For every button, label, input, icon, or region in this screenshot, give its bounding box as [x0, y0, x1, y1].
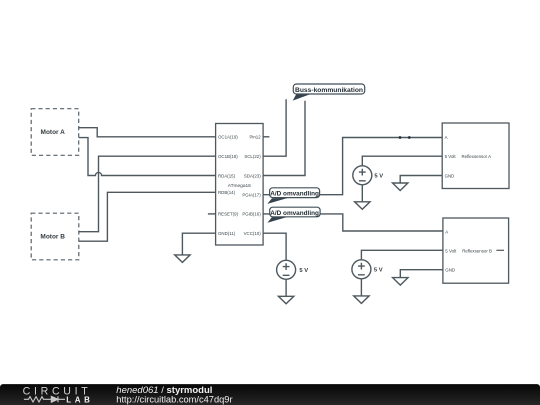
- svg-text:ATmega16: ATmega16: [228, 183, 251, 189]
- wire V2 to ground: [361, 185, 363, 202]
- wire V1 to ground: [285, 279, 287, 296]
- svg-text:Buss-kommunikation: Buss-kommunikation: [295, 87, 363, 94]
- ground for V3: [354, 296, 369, 304]
- svg-text:LAB: LAB: [66, 396, 93, 405]
- svg-text:Motor B: Motor B: [40, 234, 65, 241]
- svg-text:OC1A(19): OC1A(19): [218, 135, 238, 140]
- svg-text:Reflexsensor B: Reflexsensor B: [462, 248, 492, 253]
- motor B box: [31, 213, 79, 260]
- svg-text:5 Volt: 5 Volt: [445, 248, 457, 253]
- wire VCC(10) to 5V source V1: [263, 233, 286, 260]
- ground for sensor B: [393, 278, 408, 286]
- svg-text:GND: GND: [445, 268, 455, 273]
- svg-text:A: A: [445, 135, 448, 140]
- svg-text:PGIA(17): PGIA(17): [242, 193, 261, 198]
- callout A/D omvandling 1: [267, 188, 319, 204]
- motor A box: [31, 109, 78, 156]
- wire SDA(23) to bus: [263, 101, 305, 176]
- wire motor A to RDA with hop: [79, 138, 216, 176]
- voltage source V2 5V (sensor A supply): [362, 156, 442, 166]
- dash after Reflexsensor B: [496, 249, 504, 251]
- svg-text:OC1B(18): OC1B(18): [218, 154, 238, 159]
- ground for GND(11): [175, 255, 190, 263]
- svg-text:Motor A: Motor A: [41, 129, 66, 136]
- IC pin labels: [218, 135, 261, 236]
- junction dot 1: [399, 136, 402, 139]
- sensor box Reflexsensor B: [443, 218, 509, 283]
- svg-text:5 V: 5 V: [374, 268, 383, 274]
- wire PGIA(17) to sensor A: [263, 138, 442, 195]
- svg-text:5 V: 5 V: [374, 174, 383, 180]
- sensor B pin labels: [445, 229, 492, 272]
- svg-text:RDA(15): RDA(15): [218, 173, 236, 178]
- svg-text:RDB(14): RDB(14): [218, 190, 236, 195]
- wire motor A to OC1A: [79, 128, 216, 137]
- wire motor B to RDB: [79, 192, 216, 241]
- svg-text:GND: GND: [445, 173, 455, 178]
- pin stub RESET(9): [208, 213, 216, 215]
- IC U1 ATmega16: [216, 124, 264, 246]
- ground for V2: [355, 202, 370, 210]
- wire GND(11) to ground: [182, 233, 215, 255]
- junction dot 2: [408, 136, 411, 139]
- svg-text:A: A: [445, 229, 448, 234]
- svg-text:A/D omvandling: A/D omvandling: [270, 210, 319, 217]
- footer bar: [0, 384, 540, 405]
- wire sensor B GND to ground: [400, 270, 443, 278]
- callout A/D omvandling 2: [267, 207, 320, 223]
- svg-text:A/D omvandling: A/D omvandling: [270, 190, 319, 197]
- ground for V1: [278, 296, 293, 304]
- callout Buss-kommunikation: [293, 84, 365, 101]
- svg-text:Pin12: Pin12: [249, 135, 261, 140]
- pin stub Pin12: [263, 136, 269, 138]
- ground for sensor A: [393, 183, 408, 191]
- wire sensor A GND to ground: [400, 176, 442, 184]
- svg-text:GND(11): GND(11): [218, 231, 236, 236]
- voltage source V1 5V: [277, 260, 296, 279]
- svg-text:5 V: 5 V: [299, 268, 308, 274]
- wire V3 to ground: [360, 279, 362, 296]
- svg-text:http://circuitlab.com/c47dq9r: http://circuitlab.com/c47dq9r: [116, 394, 232, 404]
- voltage source V3 5V (sensor B supply): [361, 250, 443, 259]
- sensor box Reflexsensor A: [442, 123, 509, 189]
- logo resistor and diode: [24, 396, 65, 402]
- svg-text:5 Volt: 5 Volt: [445, 154, 457, 159]
- svg-text:PGIB(16): PGIB(16): [242, 212, 261, 217]
- wire SCL(22) to bus: [263, 99, 286, 156]
- svg-text:RESET(9): RESET(9): [218, 212, 239, 217]
- sensor A pin labels: [445, 135, 492, 179]
- svg-text:SDA(23): SDA(23): [244, 173, 261, 178]
- svg-text:Reflexsensor A: Reflexsensor A: [462, 154, 492, 159]
- svg-text:SCL(22): SCL(22): [244, 154, 261, 159]
- wire PGIB(16) to sensor B: [263, 214, 443, 231]
- svg-text:VCC(10): VCC(10): [244, 231, 262, 236]
- wire motor B to OC1B: [79, 156, 216, 232]
